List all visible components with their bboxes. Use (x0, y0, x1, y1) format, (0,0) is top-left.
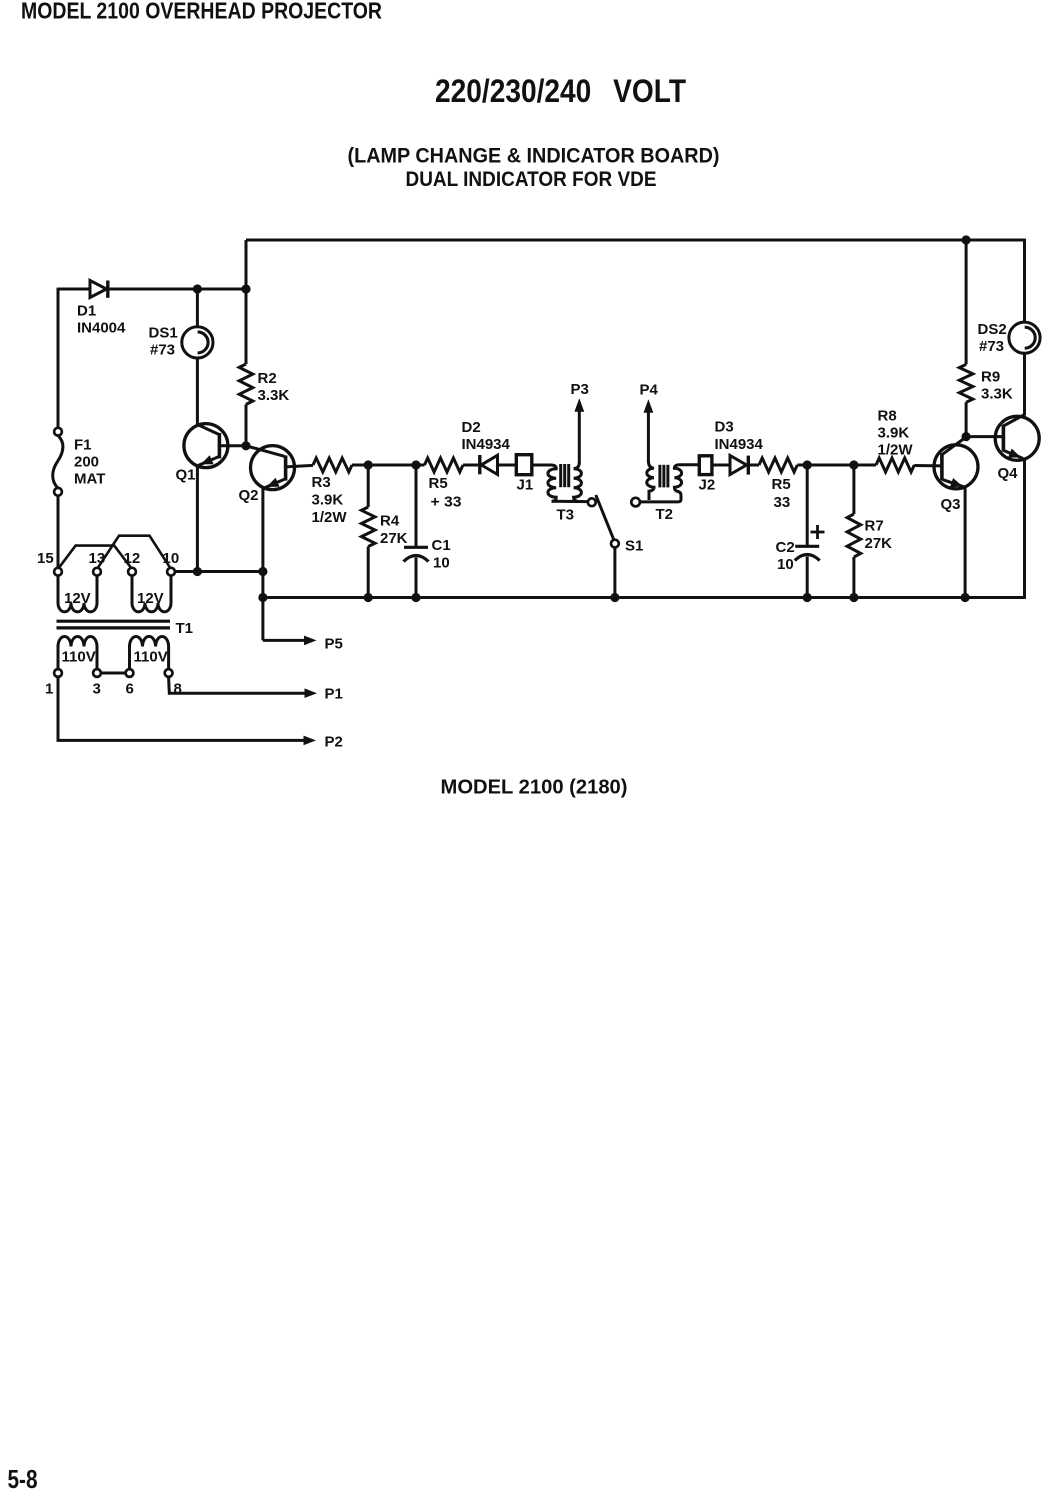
resistor R7 27K (847, 514, 861, 557)
svg-text:10: 10 (433, 555, 450, 572)
wire link terminal 13 to 10 (98, 536, 171, 569)
transformer T1 core (57, 620, 171, 623)
node R9/Q3 collector/Q4 base (962, 432, 971, 441)
transformer T1 terminal 10 (167, 568, 175, 576)
node R4 at ground bus (364, 593, 373, 602)
wire R7 bottom to ground bus (852, 557, 855, 598)
transformer T3 core (559, 464, 562, 487)
transformer T1 110V winding left (58, 637, 97, 670)
svg-text:DUAL INDICATOR FOR VDE: DUAL INDICATOR FOR VDE (406, 167, 657, 191)
wire R5 to C2 tap (797, 464, 807, 467)
terminal T2 return (631, 498, 640, 507)
svg-text:3.9K: 3.9K (878, 425, 910, 442)
svg-text:P3: P3 (571, 381, 589, 398)
svg-text:5-8: 5-8 (8, 1464, 38, 1494)
switch S1 lever (596, 495, 615, 541)
svg-text:10: 10 (777, 556, 794, 573)
svg-text:R7: R7 (865, 518, 884, 535)
wire top rail to R9 (965, 240, 968, 364)
svg-text:15: 15 (37, 550, 54, 567)
jumper J1 (516, 455, 532, 475)
svg-text:T1: T1 (176, 620, 194, 637)
svg-text:1/2W: 1/2W (878, 442, 914, 459)
lamp DS2 (1009, 322, 1040, 353)
node C1 at ground bus (411, 593, 420, 602)
lamp DS1 (182, 327, 213, 358)
node top rail R9 branch (962, 235, 971, 244)
svg-text:C2: C2 (776, 539, 795, 556)
wire Q4 collector up to DS2 (1023, 353, 1026, 416)
wire D2 to J1 (498, 464, 517, 467)
wire node to R2 top (245, 289, 248, 364)
svg-text:1/2W: 1/2W (312, 509, 348, 526)
svg-text:200: 200 (74, 454, 99, 471)
transistor Q3 (934, 445, 978, 489)
svg-text:P5: P5 (325, 636, 343, 653)
svg-text:Q3: Q3 (941, 496, 961, 513)
svg-text:27K: 27K (865, 535, 893, 552)
transformer T1 12V winding right (132, 576, 171, 612)
wire R4 bottom to ground bus (367, 547, 370, 598)
wire left drop from top rail to D1 node (245, 240, 248, 289)
resistor R8 3.9K 1/2W (876, 458, 914, 472)
svg-text:3.3K: 3.3K (981, 386, 1013, 403)
svg-text:6: 6 (126, 681, 134, 698)
wire DS1 bottom to Q1 collector (196, 358, 199, 426)
wire D3 to R5 (748, 464, 759, 467)
transformer T2 core (658, 465, 661, 488)
wire node to DS1 top (196, 289, 199, 328)
wire D1 cathode to node (108, 288, 246, 291)
svg-text:D2: D2 (462, 419, 481, 436)
svg-text:33: 33 (774, 494, 791, 511)
svg-text:R2: R2 (258, 370, 277, 387)
wire C1 upper lead (415, 465, 418, 547)
connector P1 (169, 677, 306, 693)
wire R2 bottom to base node (245, 404, 248, 445)
jumper J2 (699, 456, 712, 475)
svg-text:IN4934: IN4934 (462, 436, 511, 453)
node C1 tap (411, 460, 420, 469)
switch S1 fixed contact (588, 498, 596, 506)
transformer T1 terminal 3 (93, 669, 101, 677)
connector P3 (578, 411, 581, 464)
svg-text:T2: T2 (656, 506, 674, 523)
transformer T1 terminal 1 (54, 669, 62, 677)
svg-text:12V: 12V (64, 590, 91, 607)
svg-text:8: 8 (174, 681, 182, 698)
svg-text:P1: P1 (325, 686, 343, 703)
svg-text:R8: R8 (878, 408, 897, 425)
wire Q3 emitter to ground bus (964, 487, 967, 598)
node C2 at ground bus (803, 593, 812, 602)
transformer T1 terminal 13 (93, 568, 101, 576)
svg-text:220/230/240 VOLT: 220/230/240 VOLT (435, 73, 686, 109)
transistor Q4 (995, 416, 1039, 460)
svg-text:(LAMP CHANGE & INDICATOR BOARD: (LAMP CHANGE & INDICATOR BOARD) (348, 144, 720, 168)
wire rail from transformer tap to Q1/Q2 emitters (175, 570, 263, 573)
node R4 tap (364, 460, 373, 469)
svg-text:R5: R5 (772, 476, 791, 493)
wire right rail upper segment (top rail to DS2) (1023, 239, 1026, 323)
svg-text:D3: D3 (715, 419, 734, 436)
wire R9 bottom to node (965, 402, 968, 436)
diode D2 IN4934 (478, 455, 481, 474)
node Q2 emitter at rail1 (258, 567, 267, 576)
svg-text:12: 12 (124, 550, 141, 567)
wire bottom rail (ground bus) (263, 596, 1025, 599)
svg-text:J1: J1 (517, 477, 534, 494)
wire J2 to D3 (712, 464, 731, 467)
wire J1 to T3 (532, 464, 552, 467)
wire R4 upper lead (367, 465, 370, 507)
wire node to Q4 base (966, 435, 1003, 438)
svg-text:110V: 110V (62, 649, 96, 666)
resistor R5 +33 (416, 464, 425, 467)
transformer T3 secondary winding (574, 463, 582, 502)
svg-text:P2: P2 (325, 734, 343, 751)
wire C2 bottom to ground bus (806, 557, 809, 598)
svg-text:DS2: DS2 (978, 321, 1007, 338)
transistor Q1 (184, 424, 228, 468)
wire R3 to R4 tap (352, 464, 368, 467)
svg-text:#73: #73 (150, 342, 175, 359)
transformer T3 primary winding (548, 465, 556, 501)
svg-text:12V: 12V (137, 590, 164, 607)
resistor R5 33 (759, 458, 797, 472)
svg-text:IN4004: IN4004 (77, 320, 126, 337)
diode D3 IN4934 (730, 456, 747, 475)
node R2/Q1 base/Q2 collector (241, 441, 250, 450)
node Q1 emitter at rail (193, 567, 202, 576)
connector P2 (58, 677, 305, 740)
node D1-DS1 junction (193, 284, 202, 293)
capacitor C2 10 (polarity +) (795, 545, 819, 548)
wire R7 upper lead (852, 465, 855, 514)
node Q3 emitter at ground bus (961, 593, 970, 602)
svg-text:R9: R9 (981, 369, 1000, 386)
node D1-R2 junction (241, 284, 250, 293)
transformer T1 terminal 15 (54, 568, 62, 576)
svg-text:D1: D1 (77, 303, 96, 320)
svg-text:S1: S1 (625, 538, 643, 555)
svg-text:R4: R4 (380, 513, 400, 530)
node C2 tap (803, 460, 812, 469)
connector P5 (263, 639, 306, 642)
svg-text:3.3K: 3.3K (258, 387, 290, 404)
transistor Q2 (251, 446, 295, 490)
wire R4 tap to C1 tap (368, 464, 416, 467)
svg-text:MODEL 2100 (2180): MODEL 2100 (2180) (441, 776, 628, 799)
node R7 at ground bus (849, 593, 858, 602)
svg-text:Q1: Q1 (176, 467, 196, 484)
svg-text:1: 1 (45, 681, 53, 698)
wire T3 bottom to switch contact (552, 500, 589, 503)
wire C1 bottom to ground bus (415, 558, 418, 598)
wire F1 bottom to transformer terminal 15 (57, 496, 60, 568)
wire S1 to ground bus (613, 547, 616, 597)
wire C2 upper lead (806, 465, 809, 546)
wire C2 tap to R7 tap (807, 464, 854, 467)
svg-text:IN4934: IN4934 (715, 436, 764, 453)
svg-text:T3: T3 (557, 507, 575, 524)
svg-text:P4: P4 (640, 382, 659, 399)
svg-text:F1: F1 (74, 437, 92, 454)
node R7 tap (849, 460, 858, 469)
svg-text:MODEL 2100 OVERHEAD PROJECTOR: MODEL 2100 OVERHEAD PROJECTOR (21, 0, 382, 24)
transformer T2 secondary winding (647, 461, 654, 500)
svg-text:110V: 110V (134, 649, 168, 666)
svg-text:27K: 27K (380, 530, 408, 547)
connector P4 (647, 412, 650, 463)
resistor R4 27K (361, 507, 375, 547)
svg-text:Q2: Q2 (239, 487, 259, 504)
wire terminal 3 to terminal 6 (101, 672, 126, 675)
node Q2 emitter at ground bus (258, 593, 267, 602)
wire left vertical from D1 anode down to fuse (57, 288, 60, 428)
wire Q1 emitter down to rail (196, 465, 199, 572)
svg-text:3: 3 (93, 681, 101, 698)
fuse F1 (54, 428, 62, 436)
svg-text:+ 33: + 33 (431, 494, 462, 511)
svg-text:3.9K: 3.9K (312, 492, 344, 509)
resistor R3 3.9K 1/2W (313, 458, 352, 472)
transformer T1 12V winding left (58, 576, 97, 612)
resistor R9 3.3K (959, 364, 973, 402)
svg-text:C1: C1 (432, 537, 451, 554)
transformer T1 terminal 8 (165, 669, 173, 677)
transformer T1 110V winding right (130, 636, 169, 669)
wire R7 tap to R8 (854, 464, 876, 467)
svg-text:J2: J2 (699, 477, 716, 494)
transformer T2 primary winding (640, 465, 700, 502)
node S1 at ground bus (610, 593, 619, 602)
wire Q4 emitter down to ground bus (1023, 458, 1026, 599)
svg-text:R3: R3 (312, 474, 331, 491)
wire R8 to Q3 base (914, 464, 942, 467)
transformer T1 terminal 6 (126, 669, 134, 677)
svg-text:R5: R5 (429, 475, 448, 492)
svg-text:MAT: MAT (74, 471, 105, 488)
wire link terminal 15 to 12 (59, 546, 132, 569)
capacitor C1 10 (404, 546, 428, 549)
svg-text:#73: #73 (979, 338, 1004, 355)
diode D1 (90, 281, 107, 298)
wire D1 anode segment (58, 288, 90, 291)
wire Q2 emitter down through rails to P5 (261, 488, 264, 640)
svg-text:DS1: DS1 (149, 325, 178, 342)
wire top supply rail (246, 239, 1025, 242)
resistor R2 3.3K (239, 364, 253, 404)
switch S1 pole contact (611, 540, 619, 548)
svg-text:Q4: Q4 (998, 465, 1019, 482)
transformer T1 terminal 12 (128, 568, 136, 576)
wire R5 to D2 cathode (463, 464, 478, 467)
